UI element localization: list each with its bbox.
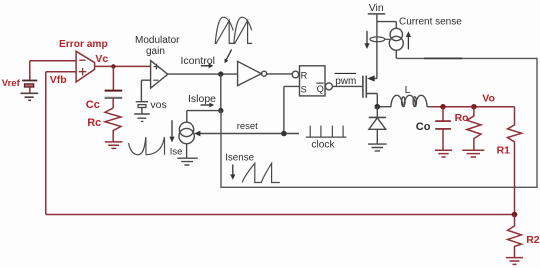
node Vc junction dot [111, 64, 115, 68]
ground R2 [506, 258, 523, 265]
svg-text:Vc: Vc [95, 53, 108, 65]
waveform clock pulses [306, 126, 347, 138]
wire latch output to MOSFET gate [332, 85, 362, 87]
node dot Ro [471, 104, 476, 109]
resistor Rc [105, 108, 121, 142]
arrow Icontrol direction [201, 65, 209, 67]
svg-text:Modulator: Modulator [135, 35, 180, 46]
battery Vref source [22, 81, 37, 93]
capacitor Co output [435, 107, 451, 150]
diode D1 freewheel [369, 107, 386, 144]
inductor L1 [380, 95, 431, 106]
arrow sense current up [407, 37, 409, 50]
resistor Ro load [467, 107, 481, 150]
waveform ramp and control at comparator input [215, 17, 252, 44]
svg-text:Isense: Isense [225, 153, 254, 164]
current sense element circles [389, 28, 403, 50]
transistor Q1 MOSFET [363, 76, 366, 98]
svg-text:Vref: Vref [2, 78, 21, 89]
node dot feedback junction [512, 212, 518, 218]
waveform slope compensation [129, 137, 165, 155]
wire vos to modulator inverting input [141, 80, 150, 101]
svg-text:vos: vos [150, 99, 166, 111]
svg-text:clock: clock [311, 140, 335, 151]
arrow Ise direction down [171, 120, 173, 137]
arrow waveform annotation pointer [226, 49, 231, 59]
wire Vc rail [95, 65, 151, 67]
node junction dot S/reset [281, 131, 287, 137]
ground Ise [177, 158, 197, 165]
svg-text:R: R [301, 71, 308, 81]
node junction dot Islope summing [218, 108, 223, 113]
svg-text:gain: gain [146, 46, 165, 57]
wire current sense return path [221, 58, 537, 187]
node switch node dot [375, 104, 381, 110]
wire S input to clock line [284, 86, 300, 133]
svg-text:reset: reset [237, 121, 258, 132]
ground Rc [105, 142, 123, 149]
ground Co [435, 150, 452, 157]
svg-text:Vo: Vo [482, 92, 495, 104]
resistor R1 divider top [508, 107, 522, 215]
ground diode [368, 144, 387, 151]
svg-text:R1: R1 [497, 145, 511, 157]
wire branch to current sense [377, 22, 396, 29]
ground vos [134, 114, 150, 121]
op-amp U1 error amp [76, 51, 95, 82]
power rail Vin bar [368, 13, 385, 15]
waveform Isense sawtooth [242, 163, 279, 182]
svg-text:Vin: Vin [369, 2, 384, 14]
svg-text:Vfb: Vfb [50, 74, 67, 86]
wire ellipse to sense circles [385, 38, 390, 40]
svg-text:Error amp: Error amp [59, 39, 108, 50]
svg-text:S: S [301, 85, 307, 95]
wire output rail Vo [431, 106, 515, 108]
wire reset line [197, 133, 299, 135]
wire current sense output down [395, 50, 397, 58]
sense loop ellipse on drain wire [370, 37, 385, 42]
current source Ise slope compensation [179, 122, 194, 158]
arrow current direction down [366, 31, 368, 44]
node dot Co [440, 104, 445, 109]
node junction dot Icontrol/Isense summing [218, 71, 223, 76]
wire comparator input to summing node [220, 74, 222, 111]
svg-text:Co: Co [416, 121, 431, 133]
svg-text:R2: R2 [526, 234, 540, 246]
svg-text:pwm: pwm [335, 76, 356, 87]
svg-text:L: L [405, 84, 411, 96]
ground Ro [462, 150, 484, 157]
wire Islope to Ise source [187, 111, 221, 123]
wire Vin to MOSFET drain [376, 14, 378, 79]
capacitor Cc [105, 66, 123, 108]
wire comparator output to latch R [267, 73, 292, 75]
svg-text:Cc: Cc [86, 99, 100, 111]
battery vos offset source [136, 102, 148, 114]
comparator U3 [238, 61, 267, 85]
svg-text:Ro: Ro [455, 112, 469, 124]
wire feedback Vfb bottom [46, 72, 515, 215]
arrow Isense direction down [232, 165, 234, 176]
resistor R2 divider bottom [508, 215, 522, 258]
svg-text:Ise: Ise [170, 147, 183, 158]
svg-text:Islope: Islope [188, 93, 216, 105]
wire inverting input Vref to error amp [30, 61, 76, 80]
op-amp U2 modulator gain [151, 61, 168, 89]
svg-text:Q: Q [317, 84, 324, 94]
svg-text:Rc: Rc [87, 117, 101, 129]
svg-text:Current sense: Current sense [399, 17, 462, 28]
ground Vref [20, 93, 38, 100]
latch U4 SR flip-flop [292, 66, 332, 96]
arrow Islope direction [201, 104, 210, 106]
wire modulator output to comparator [168, 73, 238, 75]
